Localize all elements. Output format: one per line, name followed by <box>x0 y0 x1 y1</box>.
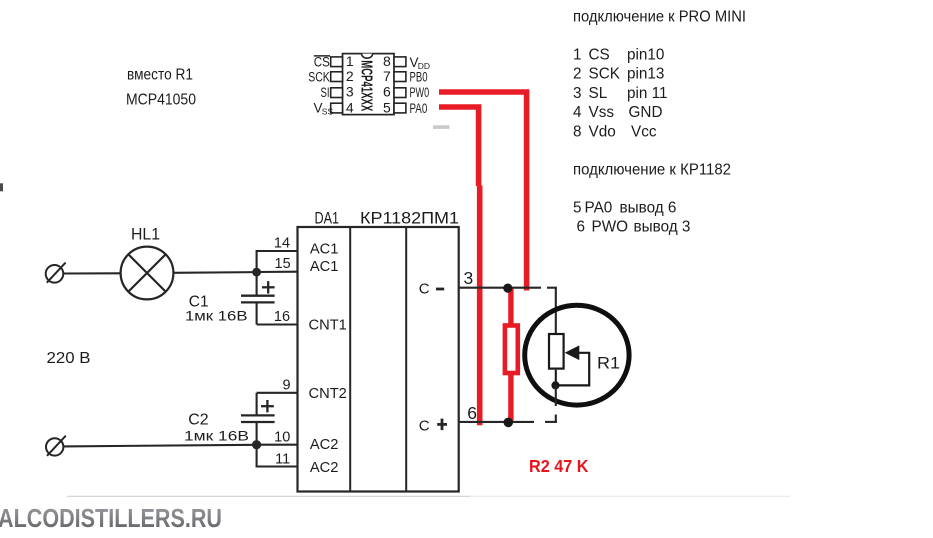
pin 7 box <box>394 72 406 82</box>
pin 1 box <box>331 57 343 67</box>
wire PA0 to node C+ (red) upper segment <box>439 107 479 186</box>
svg-text:4: 4 <box>573 104 582 121</box>
svg-text:C: C <box>419 281 430 298</box>
svg-text:SL: SL <box>589 85 608 102</box>
svg-text:ALCODISTILLERS.RU: ALCODISTILLERS.RU <box>0 503 222 533</box>
svg-text:PW0: PW0 <box>410 85 430 100</box>
svg-text:AC2: AC2 <box>310 460 339 476</box>
svg-text:16: 16 <box>274 309 290 325</box>
svg-text:Vcc: Vcc <box>631 124 657 141</box>
svg-text:1мк 16В: 1мк 16В <box>184 428 249 444</box>
svg-text:5: 5 <box>573 199 582 216</box>
svg-text:Vss: Vss <box>589 104 615 121</box>
pin 5 box <box>394 103 406 113</box>
svg-text:3: 3 <box>573 85 582 102</box>
svg-text:1мк 16В: 1мк 16В <box>185 307 248 323</box>
capacitor C1 top plate <box>241 295 275 297</box>
svg-text:КР1182ПМ1: КР1182ПМ1 <box>360 210 459 228</box>
svg-text:подключение к КР1182: подключение к КР1182 <box>573 161 731 178</box>
svg-text:PA0: PA0 <box>585 199 613 216</box>
wire R1 bottom to node C+ segment <box>555 385 557 406</box>
capacitor C1 top lead <box>256 272 258 296</box>
pin 11 wire <box>257 445 298 467</box>
svg-text:CS: CS <box>589 46 610 63</box>
svg-text:3: 3 <box>346 84 354 100</box>
svg-text:7: 7 <box>383 68 391 84</box>
capacitor C2 top lead <box>256 393 258 416</box>
pin 2 box <box>331 72 343 82</box>
wire terminal 1 to lamp <box>63 272 120 274</box>
capacitor C2 top plate <box>241 414 275 416</box>
svg-text:2: 2 <box>346 68 354 84</box>
DA1 internal divider 2 <box>405 227 407 492</box>
capacitor C1 polarity plus <box>262 286 275 288</box>
pin 6 wire segment <box>459 421 534 423</box>
svg-text:pin 11: pin 11 <box>627 85 668 102</box>
svg-text:6: 6 <box>383 84 391 100</box>
svg-text:SS: SS <box>322 106 334 116</box>
svg-text:6: 6 <box>467 403 477 423</box>
wire R1 bottom to node C+ dash <box>555 415 557 424</box>
svg-text:pin10: pin10 <box>627 46 664 63</box>
svg-text:9: 9 <box>283 378 291 394</box>
lamp HL1 <box>121 247 174 300</box>
pin 8 box <box>394 57 406 67</box>
svg-text:3: 3 <box>464 268 474 288</box>
scan mark left edge <box>0 183 3 191</box>
capacitor C2 bottom plate <box>241 421 275 423</box>
resistor R2 top lead (red) <box>508 289 513 328</box>
svg-text:GND: GND <box>629 104 663 121</box>
pin 3 wire dash <box>547 287 557 289</box>
svg-text:PWO: PWO <box>592 219 629 236</box>
junction node C- <box>503 284 512 293</box>
capacitor C2 polarity plus <box>261 405 274 407</box>
wire PW0 to node C- (red) <box>439 92 527 291</box>
svg-text:SCK: SCK <box>589 66 621 83</box>
svg-text:AC1: AC1 <box>310 242 339 258</box>
scan smudge below MCP <box>433 125 450 129</box>
terminal 1 (220V) <box>46 265 64 283</box>
svg-text:6: 6 <box>577 219 586 236</box>
svg-text:11: 11 <box>275 451 290 467</box>
IC DA1 KR1182PM1 body <box>298 227 459 492</box>
pin 10 wire <box>257 444 298 446</box>
capacitor C2 bottom lead <box>256 422 258 445</box>
scan boundary faint line <box>67 495 470 497</box>
svg-text:CNT2: CNT2 <box>309 386 347 402</box>
junction node bottom <box>252 440 261 449</box>
svg-text:15: 15 <box>275 256 291 272</box>
svg-text:SCK: SCK <box>308 69 330 84</box>
svg-text:вместо R1: вместо R1 <box>127 67 193 84</box>
svg-text:R2 47 K: R2 47 K <box>529 456 589 476</box>
IC U1 MCP41XXX body <box>343 54 395 115</box>
svg-text:вывод 3: вывод 3 <box>634 219 691 236</box>
svg-text:подключение к PRO MINI: подключение к PRO MINI <box>573 9 746 26</box>
pin 3 wire segment <box>459 287 541 289</box>
svg-text:2: 2 <box>573 66 582 83</box>
terminal 2 (220V) <box>46 438 63 455</box>
R1 wiper junction node <box>551 381 559 389</box>
svg-text:вывод 6: вывод 6 <box>620 199 677 216</box>
svg-text:pin13: pin13 <box>627 66 664 83</box>
capacitor C1 bottom plate <box>241 301 275 303</box>
C+ plus sign <box>437 423 447 426</box>
CS overline <box>314 55 330 57</box>
R1 wiper wire <box>556 353 589 386</box>
svg-text:R1: R1 <box>597 354 620 372</box>
svg-text:AC1: AC1 <box>310 259 339 275</box>
pin 4 box <box>331 103 343 113</box>
pin 16 wire <box>257 323 298 325</box>
svg-text:1: 1 <box>346 53 354 69</box>
pin 6 wire dash <box>545 421 557 423</box>
DA1 internal divider 1 <box>349 227 351 492</box>
C- minus sign <box>436 288 444 291</box>
svg-text:MCP41050: MCP41050 <box>126 92 196 109</box>
pin 14 wire <box>257 251 298 272</box>
wire lamp to junction <box>173 271 256 274</box>
junction node top <box>252 268 261 277</box>
junction node C+ <box>504 418 514 428</box>
svg-text:10: 10 <box>274 429 290 445</box>
svg-text:SI: SI <box>321 85 330 100</box>
svg-text:1: 1 <box>573 46 582 63</box>
svg-text:HL1: HL1 <box>131 226 160 244</box>
svg-text:4: 4 <box>346 100 354 116</box>
wire PA0 to node C+ (red) lower segment <box>477 186 483 426</box>
svg-text:MCP41XXX: MCP41XXX <box>358 60 375 111</box>
svg-text:PA0: PA0 <box>410 101 428 116</box>
svg-text:DA1: DA1 <box>315 210 340 228</box>
pin 3 box <box>331 88 343 98</box>
resistor R2 body (red) <box>505 326 518 374</box>
pin 15 wire <box>257 271 298 273</box>
potentiometer R1 circle outline <box>525 305 629 405</box>
svg-text:5: 5 <box>383 100 391 116</box>
R1 bottom lead <box>555 370 557 386</box>
wire terminal 2 to junction <box>63 445 256 447</box>
resistor R2 bottom lead (red) <box>508 372 513 422</box>
svg-text:Vdo: Vdo <box>589 124 616 141</box>
svg-text:8: 8 <box>383 53 391 69</box>
pin 9 wire <box>257 392 298 394</box>
svg-text:C2: C2 <box>188 412 208 429</box>
potentiometer R1 body <box>549 334 564 369</box>
R1 wiper arrow head <box>565 345 580 360</box>
wire node C- to R1 top <box>555 288 557 333</box>
capacitor C1 bottom lead <box>256 302 258 324</box>
svg-text:C: C <box>419 418 430 435</box>
svg-text:220 В: 220 В <box>47 350 91 367</box>
svg-text:14: 14 <box>274 236 290 252</box>
svg-text:AC2: AC2 <box>310 437 339 453</box>
svg-text:CNT1: CNT1 <box>309 317 347 333</box>
pin 6 box <box>394 88 406 98</box>
svg-text:8: 8 <box>573 124 582 141</box>
svg-text:PB0: PB0 <box>410 70 428 85</box>
IC U1 notch <box>362 54 373 59</box>
